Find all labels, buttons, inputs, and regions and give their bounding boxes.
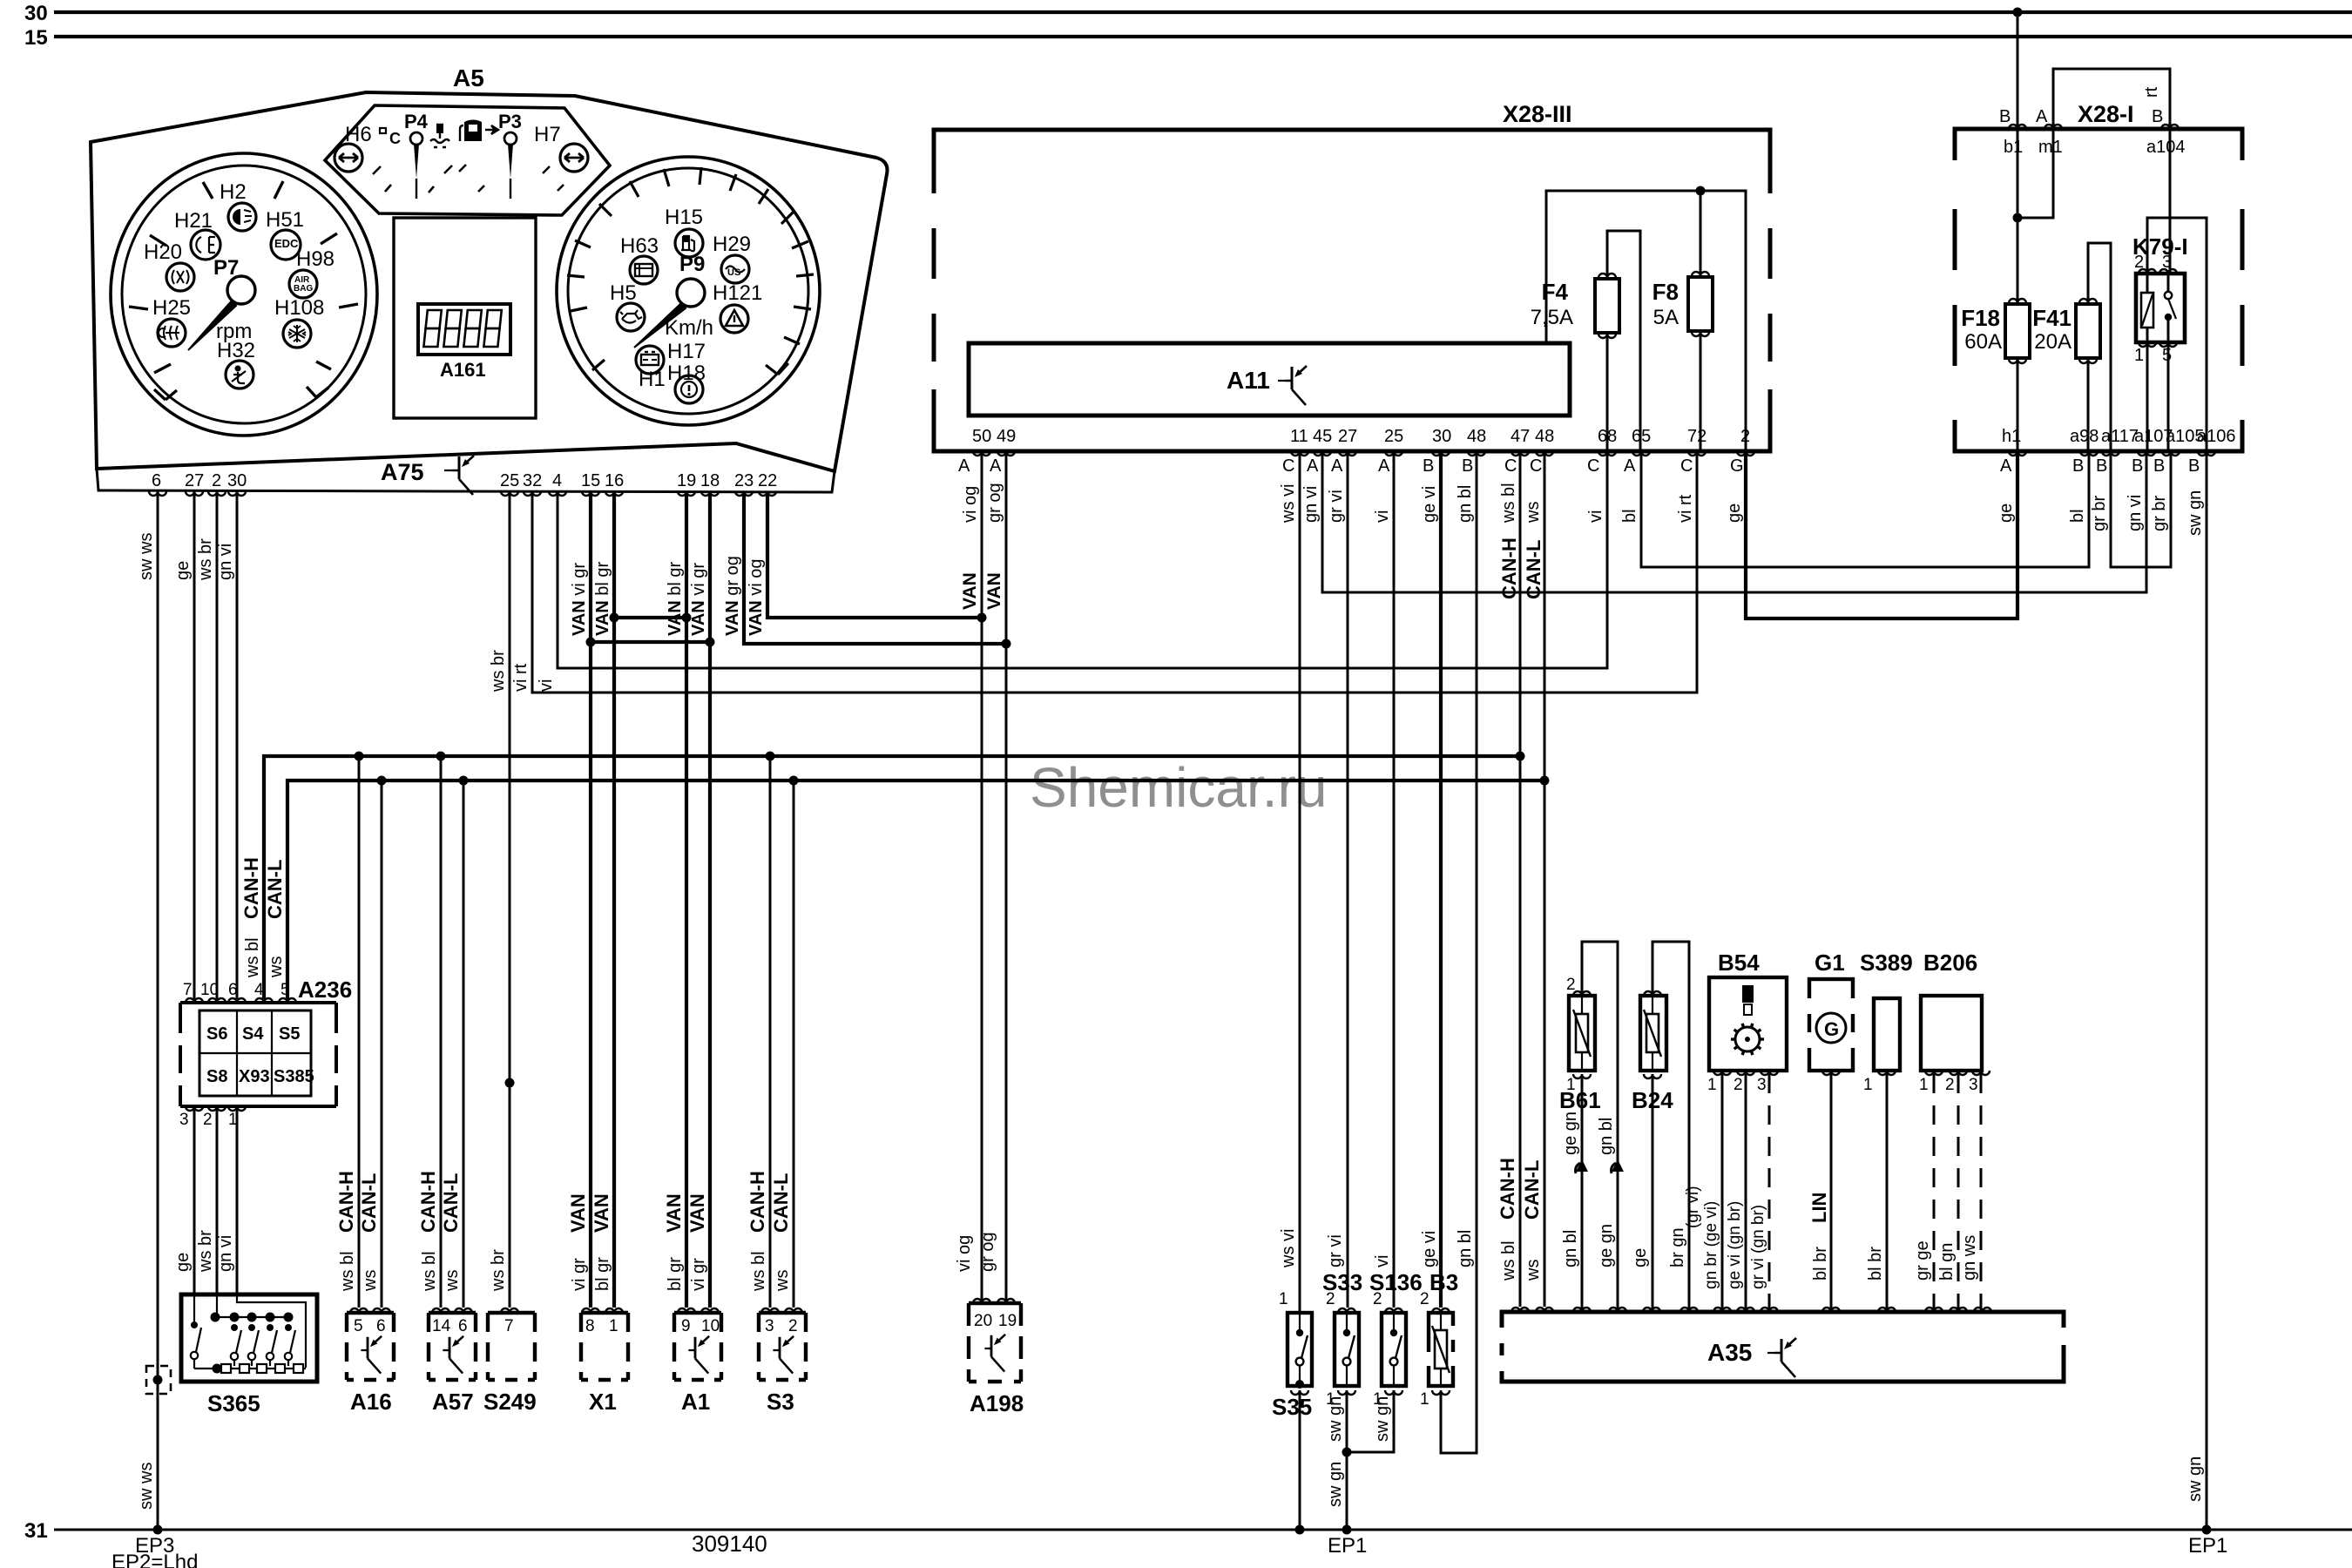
- svg-text:X1: X1: [589, 1389, 617, 1415]
- svg-text:B54: B54: [1718, 950, 1760, 976]
- wire rail30 to b1 to F18: [2017, 12, 2019, 304]
- svg-text:H2: H2: [220, 180, 247, 204]
- svg-text:gr ge: gr ge: [1913, 1240, 1932, 1281]
- svg-text:20: 20: [974, 1312, 992, 1330]
- svg-text:10: 10: [200, 981, 219, 999]
- svg-text:S3: S3: [767, 1389, 794, 1415]
- svg-text:vi: vi: [1373, 1255, 1392, 1267]
- svg-text:15: 15: [24, 26, 48, 50]
- svg-text:bl: bl: [1620, 509, 1639, 523]
- wire VAN vi gr A75.15 to X1.8: [589, 491, 592, 1308]
- svg-text:VAN: VAN: [567, 1193, 589, 1233]
- svg-text:Shemicar.ru: Shemicar.ru: [1030, 756, 1327, 819]
- mini gauge ticks: [373, 165, 564, 193]
- wire CAN-L bus run: [287, 781, 1544, 999]
- svg-text:3: 3: [765, 1317, 774, 1335]
- control unit A35: [1502, 1312, 2064, 1382]
- svg-text:19: 19: [677, 471, 696, 490]
- svg-text:B: B: [2188, 456, 2200, 476]
- svg-text:vi: vi: [1373, 510, 1392, 523]
- svg-text:H63: H63: [620, 234, 659, 258]
- S365 bottom terminals: [194, 1368, 306, 1369]
- wire ge vi A11.30 to B3.2: [1439, 451, 1443, 1308]
- svg-text:EP2=Lhd: EP2=Lhd: [112, 1551, 198, 1568]
- A35 pin cups: [1511, 1308, 1529, 1312]
- svg-text:48: 48: [1535, 427, 1554, 446]
- svg-text:C: C: [1587, 456, 1599, 476]
- svg-text:65: 65: [1632, 427, 1651, 446]
- connector strip A75 body: [97, 443, 835, 492]
- wire ws br A75.25 to S249.7: [509, 491, 511, 1308]
- svg-text:F4: F4: [1542, 279, 1569, 305]
- node junction rail30 to b1: [2013, 8, 2023, 17]
- svg-text:15: 15: [581, 471, 600, 490]
- svg-text:2: 2: [1740, 427, 1750, 446]
- svg-text:8: 8: [585, 1317, 595, 1335]
- svg-text:16: 16: [605, 471, 624, 490]
- wire gr vi A11.27 to S33.2: [1347, 451, 1349, 1308]
- svg-text:S8: S8: [206, 1067, 227, 1086]
- wires to S3: [770, 756, 794, 1308]
- svg-text:VAN: VAN: [663, 1193, 685, 1233]
- svg-text:ws br: ws br: [489, 1249, 508, 1292]
- control unit A57: [429, 1313, 476, 1380]
- svg-text:sw ws: sw ws: [137, 1463, 156, 1510]
- svg-text:VAN: VAN: [686, 1193, 708, 1233]
- svg-text:G: G: [1824, 1018, 1839, 1040]
- sensor B24: [1640, 996, 1666, 1071]
- coolant icon: [430, 125, 449, 147]
- svg-text:2: 2: [1566, 976, 1576, 994]
- svg-text:19: 19: [998, 1312, 1017, 1330]
- S365 internal bus: [215, 1316, 288, 1318]
- svg-text:A75: A75: [381, 459, 424, 485]
- svg-text:2: 2: [212, 471, 221, 490]
- svg-text:ws bl: ws bl: [420, 1251, 439, 1292]
- svg-text:S4: S4: [242, 1024, 264, 1044]
- wire K79-I.5 to a105: [2167, 342, 2170, 451]
- svg-text:27: 27: [1338, 427, 1357, 446]
- svg-text:gn bl: gn bl: [1597, 1118, 1616, 1155]
- svg-text:m1: m1: [2038, 138, 2063, 157]
- svg-text:vi gr: vi gr: [570, 1258, 589, 1291]
- svg-text:2: 2: [1734, 1076, 1743, 1094]
- svg-text:LIN: LIN: [1808, 1193, 1830, 1223]
- svg-text:gr og: gr og: [985, 483, 1004, 523]
- svg-text:EP1: EP1: [2188, 1534, 2227, 1558]
- svg-text:25: 25: [500, 471, 519, 490]
- svg-text:A: A: [1624, 456, 1636, 476]
- S365 switch 1: [191, 1321, 198, 1328]
- svg-text:25: 25: [1384, 427, 1403, 446]
- svg-text:VAN vi gr: VAN vi gr: [570, 563, 589, 636]
- svg-text:S249: S249: [483, 1389, 537, 1415]
- svg-text:ws br: ws br: [196, 1230, 215, 1273]
- svg-text:gn vi: gn vi: [2126, 495, 2145, 531]
- tachometer inner ring: [122, 166, 366, 423]
- svg-text:bl gr: bl gr: [593, 1257, 612, 1291]
- svg-text:B: B: [1462, 456, 1473, 476]
- wire S35 to EP1: [1299, 1390, 1301, 1530]
- svg-text:ws br: ws br: [489, 650, 508, 693]
- svg-text:ws vi: ws vi: [1279, 1229, 1298, 1268]
- svg-text:9: 9: [681, 1317, 691, 1335]
- svg-text:VAN gr og: VAN gr og: [723, 556, 742, 636]
- svg-text:bl: bl: [2068, 509, 2087, 523]
- svg-text:VAN bl gr: VAN bl gr: [666, 561, 685, 636]
- svg-text:A16: A16: [350, 1389, 392, 1415]
- svg-text:B61: B61: [1559, 1087, 1601, 1113]
- feed rail to F4 F8: [1546, 191, 1746, 451]
- svg-text:vi gr: vi gr: [689, 1258, 708, 1291]
- svg-text:CAN-L: CAN-L: [440, 1173, 462, 1233]
- svg-text:ge gn: ge gn: [1597, 1224, 1616, 1267]
- svg-text:H121: H121: [713, 281, 762, 305]
- svg-text:ge gn: ge gn: [1561, 1112, 1580, 1155]
- fuse F41 20A: [2088, 243, 2111, 451]
- svg-text:ge: ge: [1631, 1248, 1650, 1267]
- K79-I coil: [2141, 293, 2153, 328]
- X28-I pin m1: [2044, 125, 2062, 129]
- link VAN 15-18: [591, 640, 710, 644]
- wire CAN-H bus run: [264, 756, 1520, 999]
- svg-text:S5: S5: [279, 1024, 300, 1044]
- svg-text:S6: S6: [206, 1024, 227, 1044]
- wire gn bl A11.48 to B3.1: [1441, 451, 1477, 1453]
- svg-text:A35: A35: [1707, 1339, 1752, 1366]
- svg-text:VAN: VAN: [984, 572, 1004, 610]
- svg-text:7: 7: [183, 981, 193, 999]
- svg-text:gn br (ge vi): gn br (ge vi): [1702, 1201, 1720, 1289]
- speedometer ticks: [567, 167, 814, 375]
- svg-text:2: 2: [1945, 1076, 1955, 1094]
- display unit A161 outer box: [394, 218, 536, 418]
- svg-text:B: B: [1999, 107, 2011, 126]
- svg-text:3: 3: [1757, 1076, 1767, 1094]
- S365 input stubs: [194, 1294, 217, 1321]
- wire sw ws A75.6 to EP3: [157, 491, 159, 1530]
- wire m1 to b1 junction: [2017, 129, 2053, 218]
- wire ws br A75.2 to A236.10: [216, 491, 219, 999]
- svg-text:sw gn: sw gn: [2186, 1456, 2205, 1502]
- svg-text:a106: a106: [2197, 427, 2236, 446]
- svg-text:vi rt: vi rt: [1676, 494, 1695, 523]
- svg-text:ge: ge: [173, 1253, 193, 1272]
- tachometer ticks: [129, 181, 358, 400]
- svg-text:gn vi: gn vi: [1301, 486, 1321, 523]
- svg-text:A1: A1: [681, 1389, 710, 1415]
- svg-text:a104: a104: [2146, 138, 2186, 157]
- connector S249: [488, 1313, 535, 1380]
- svg-text:6: 6: [152, 471, 161, 490]
- temperature symbol: [380, 128, 386, 133]
- wire ge A75.27 to A236.7: [193, 491, 196, 999]
- svg-text:2: 2: [1373, 1290, 1382, 1308]
- svg-text:ge vi: ge vi: [1420, 1231, 1439, 1267]
- wire ge B24.1 to A35: [1652, 1074, 1654, 1312]
- svg-text:H17: H17: [667, 340, 706, 363]
- svg-text:H25: H25: [152, 296, 191, 320]
- svg-text:CAN-H: CAN-H: [335, 1171, 357, 1233]
- svg-text:vi og: vi og: [961, 486, 980, 523]
- svg-text:ws: ws: [361, 1270, 380, 1292]
- svg-text:27: 27: [185, 471, 204, 490]
- svg-text:P4: P4: [404, 111, 429, 132]
- svg-text:S389: S389: [1860, 950, 1913, 976]
- wire F18 to h1: [2017, 358, 2019, 451]
- svg-text:A198: A198: [970, 1390, 1024, 1416]
- svg-text:ws: ws: [773, 1270, 792, 1292]
- svg-text:A57: A57: [432, 1389, 474, 1415]
- svg-text:7: 7: [504, 1317, 514, 1335]
- fuse F4 7.5A: [1607, 231, 1640, 668]
- svg-text:a98: a98: [2070, 427, 2099, 446]
- svg-text:32: 32: [523, 471, 542, 490]
- wire sw gn a106 to EP1: [2206, 451, 2208, 1530]
- S365 switch 4: [267, 1324, 274, 1331]
- svg-text:4: 4: [254, 981, 264, 999]
- svg-text:A: A: [2000, 456, 2012, 476]
- speedometer P9 outer ring: [557, 157, 820, 425]
- wire vi rt A75.32 to A11.72: [532, 451, 1697, 693]
- svg-text:gr og: gr og: [978, 1232, 997, 1272]
- svg-text:1: 1: [609, 1317, 618, 1335]
- svg-text:F8: F8: [1652, 279, 1679, 305]
- svg-text:48: 48: [1467, 427, 1486, 446]
- svg-text:3: 3: [179, 1111, 189, 1129]
- svg-text:A5: A5: [453, 64, 484, 91]
- svg-text:Km/h: Km/h: [665, 316, 713, 340]
- svg-text:68: 68: [1598, 427, 1617, 446]
- wire rt loop m1 to a104: [2053, 69, 2170, 129]
- svg-text:A: A: [1307, 456, 1319, 476]
- svg-text:gn bl: gn bl: [1561, 1230, 1580, 1267]
- svg-text:A236: A236: [298, 977, 352, 1003]
- svg-text:C: C: [389, 130, 401, 147]
- svg-text:5A: 5A: [1653, 306, 1679, 329]
- svg-text:CAN-L: CAN-L: [770, 1173, 792, 1233]
- svg-text:G1: G1: [1815, 950, 1845, 976]
- svg-text:vi og: vi og: [955, 1235, 974, 1272]
- svg-text:H108: H108: [274, 296, 324, 320]
- svg-text:H29: H29: [713, 233, 751, 256]
- svg-text:A: A: [1378, 456, 1390, 476]
- svg-text:ge: ge: [173, 561, 193, 580]
- svg-text:B: B: [2132, 456, 2143, 476]
- svg-text:14: 14: [432, 1317, 451, 1335]
- svg-text:(gr vi): (gr vi): [1684, 1186, 1702, 1228]
- svg-text:ws: ws: [443, 1270, 462, 1292]
- svg-text:CAN-H: CAN-H: [417, 1171, 439, 1233]
- svg-text:S365: S365: [207, 1390, 260, 1416]
- svg-text:a117: a117: [2101, 427, 2139, 446]
- svg-text:ws vi: ws vi: [1279, 484, 1298, 524]
- svg-text:2: 2: [1420, 1290, 1429, 1308]
- wire gn vi A75.30 to A236.6: [236, 491, 239, 999]
- svg-text:h1: h1: [2002, 427, 2021, 446]
- wire ge A11.2 to X28-I h1: [1746, 451, 2017, 618]
- svg-text:br gn: br gn: [1668, 1227, 1687, 1267]
- svg-text:72: 72: [1687, 427, 1707, 446]
- svg-text:H51: H51: [266, 208, 304, 232]
- S365 switch 3: [248, 1324, 255, 1331]
- svg-text:1: 1: [1707, 1076, 1717, 1094]
- svg-text:gn bl: gn bl: [1456, 485, 1475, 523]
- wire gn ws B206.3 to A35 dashed: [1981, 1074, 1983, 1312]
- switch S35: [1288, 1313, 1312, 1386]
- svg-text:A11: A11: [1227, 367, 1270, 394]
- wire sw gn S136 to S33 junction: [1347, 1390, 1394, 1452]
- wire ge A236.3 to S365: [193, 1106, 196, 1294]
- svg-text:2: 2: [788, 1317, 798, 1335]
- svg-text:VAN: VAN: [591, 1193, 612, 1233]
- svg-text:US: US: [727, 267, 740, 278]
- svg-text:H32: H32: [217, 339, 255, 362]
- svg-text:3: 3: [1969, 1076, 1978, 1094]
- svg-text:18: 18: [700, 471, 720, 490]
- wire VAN gr og A75.23 to A11.49: [744, 491, 1006, 644]
- svg-text:X93: X93: [239, 1067, 270, 1086]
- svg-text:b1: b1: [2004, 138, 2023, 157]
- svg-text:C: C: [1530, 456, 1542, 476]
- svg-text:ge: ge: [1997, 504, 2016, 523]
- wire B54.1 to A35: [1721, 1074, 1724, 1312]
- fuse F8 5A: [1700, 191, 1702, 451]
- svg-text:H15: H15: [665, 206, 703, 229]
- splice on sw ws wire: [146, 1366, 171, 1394]
- svg-text:A: A: [958, 456, 970, 476]
- wire bl br S389 to A35: [1886, 1074, 1889, 1312]
- svg-text:1: 1: [1420, 1390, 1429, 1409]
- svg-text:31: 31: [24, 1519, 48, 1543]
- wire VAN gr og A11.49 to A198.19: [1005, 451, 1008, 1303]
- wire vi A75.4 to A11.68: [558, 451, 1607, 668]
- svg-text:7,5A: 7,5A: [1531, 306, 1573, 329]
- wire ws CAN-L A11.48 to A35: [1544, 451, 1546, 1307]
- switch block S365: [181, 1294, 317, 1382]
- svg-text:ws br: ws br: [196, 538, 215, 581]
- link VAN 16-19: [614, 616, 686, 619]
- svg-text:A161: A161: [440, 359, 486, 381]
- svg-text:23: 23: [734, 471, 754, 490]
- svg-text:vi: vi: [537, 679, 556, 692]
- svg-text:10: 10: [701, 1317, 720, 1335]
- svg-text:ws bl: ws bl: [749, 1251, 768, 1292]
- wire B54.2 to A35: [1745, 1074, 1747, 1312]
- svg-text:gn ws: gn ws: [1960, 1235, 1979, 1281]
- svg-text:1: 1: [1279, 1290, 1288, 1308]
- wire vi A11.25 to S136.2: [1393, 451, 1396, 1308]
- svg-text:A: A: [1331, 456, 1343, 476]
- svg-text:P3: P3: [498, 111, 522, 132]
- svg-text:CAN-L: CAN-L: [358, 1173, 380, 1233]
- svg-text:H7: H7: [534, 123, 561, 146]
- svg-text:A: A: [990, 456, 1002, 476]
- svg-text:49: 49: [997, 427, 1016, 446]
- svg-text:30: 30: [24, 2, 48, 25]
- wire VAN vi og A75.22 to A11.50: [767, 491, 982, 618]
- wire B54.3 to A35 dashed: [1768, 1074, 1771, 1312]
- wire gr ge B206.1 to A35 dashed: [1933, 1074, 1936, 1312]
- control unit A1: [674, 1313, 721, 1380]
- wire a104 to K79-I.3: [2169, 129, 2172, 274]
- svg-text:11: 11: [1290, 427, 1308, 446]
- svg-text:sw gn: sw gn: [1373, 1396, 1392, 1442]
- fuel pump icon: [464, 120, 482, 142]
- svg-text:H5: H5: [610, 281, 637, 305]
- S365 switch 5: [285, 1324, 292, 1331]
- svg-text:bl br: bl br: [1811, 1247, 1830, 1281]
- svg-text:gr br: gr br: [2090, 496, 2109, 531]
- svg-text:CAN-L: CAN-L: [1523, 540, 1544, 599]
- wire K79-I.2 to a106: [2147, 218, 2207, 451]
- control unit S3: [759, 1313, 806, 1380]
- svg-text:20A: 20A: [2034, 330, 2072, 354]
- svg-text:45: 45: [1313, 427, 1332, 446]
- control unit A16: [347, 1313, 394, 1380]
- svg-text:rt: rt: [2142, 86, 2161, 98]
- svg-text:30: 30: [1432, 427, 1451, 446]
- seven segment display: [418, 304, 510, 355]
- svg-text:60A: 60A: [1964, 330, 2002, 354]
- link gr br X28-I a117 to a105: [2111, 451, 2171, 567]
- svg-text:50: 50: [972, 427, 991, 446]
- wire sw gn S33 to EP1: [1346, 1390, 1348, 1530]
- svg-text:EDC: EDC: [274, 237, 299, 250]
- svg-text:309140: 309140: [692, 1531, 767, 1557]
- svg-text:F18: F18: [1961, 305, 2000, 331]
- speedometer inner ring: [568, 168, 808, 414]
- wire ws bl CAN-H A11.47 to A35: [1519, 451, 1522, 1307]
- svg-text:ws bl: ws bl: [1499, 1240, 1518, 1281]
- svg-text:G: G: [1730, 456, 1744, 476]
- control unit A198: [969, 1303, 1021, 1382]
- svg-text:H98: H98: [296, 247, 335, 271]
- svg-text:1: 1: [2134, 346, 2144, 365]
- svg-text:H20: H20: [144, 240, 182, 264]
- svg-text:gn vi: gn vi: [216, 1235, 235, 1272]
- wire ge gn B61.1 to A35: [1581, 1074, 1584, 1312]
- svg-text:6: 6: [458, 1317, 468, 1335]
- svg-text:CAN-H: CAN-H: [240, 857, 262, 919]
- svg-text:bl gn: bl gn: [1937, 1243, 1957, 1281]
- svg-text:ge vi (gn br): ge vi (gn br): [1726, 1201, 1744, 1289]
- tachometer P7 outer ring: [111, 153, 377, 436]
- svg-text:gr br: gr br: [2150, 496, 2169, 531]
- svg-text:gr vi (gn br): gr vi (gn br): [1749, 1205, 1767, 1289]
- svg-text:ge vi: ge vi: [1420, 486, 1439, 523]
- wires to A57: [441, 756, 463, 1308]
- svg-text:VAN vi og: VAN vi og: [747, 558, 766, 636]
- wire bl A11.65 to X28-I a98: [1641, 451, 2089, 567]
- svg-text:gr vi: gr vi: [1327, 490, 1346, 523]
- mini gauge hexagon panel: [325, 105, 610, 215]
- wires to A16: [359, 756, 382, 1308]
- svg-text:CAN-H: CAN-H: [1497, 1158, 1518, 1220]
- svg-text:vi: vi: [1586, 510, 1605, 523]
- wire VAN vi og A11.50 to A198.20: [981, 451, 983, 1303]
- svg-text:B: B: [2072, 456, 2084, 476]
- X28-I pin b1: [2009, 125, 2026, 129]
- svg-text:gn vi: gn vi: [216, 544, 235, 580]
- svg-text:CAN-L: CAN-L: [1521, 1160, 1543, 1220]
- svg-text:22: 22: [758, 471, 777, 490]
- svg-text:ws bl: ws bl: [243, 937, 262, 978]
- svg-text:S35: S35: [1272, 1394, 1312, 1420]
- svg-text:1: 1: [1919, 1076, 1929, 1094]
- svg-text:CAN-L: CAN-L: [264, 860, 286, 919]
- svg-text:ws: ws: [267, 956, 286, 978]
